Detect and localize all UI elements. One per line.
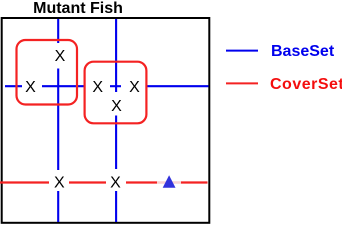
blue horizontal line segment 4: [147, 85, 209, 87]
svg-text:X: X: [54, 174, 65, 191]
faint pink line segment behind triangle: [157, 181, 181, 184]
svg-text:Mutant Fish: Mutant Fish: [33, 0, 123, 17]
svg-text:X: X: [110, 174, 121, 191]
svg-text:CoverSet: CoverSet: [270, 76, 342, 93]
red CoverSet rounded rect 1: [17, 40, 78, 105]
blue vertical line B segment middle: [115, 116, 117, 170]
blue vertical line A segment bottom: [57, 191, 59, 222]
blue horizontal line (y=86) segment 1: [5, 85, 22, 87]
svg-text:X: X: [55, 48, 66, 65]
legend BaseSet line: [226, 50, 258, 52]
svg-text:X: X: [25, 79, 36, 96]
svg-text:X: X: [111, 98, 122, 115]
blue vertical line A (x=58) segment top: [57, 19, 59, 43]
blue vertical line B (x=116) segment top: [115, 19, 117, 92]
blue horizontal line segment 3: [110, 85, 121, 87]
red horizontal line segment 3: [126, 181, 157, 183]
red horizontal line segment 2: [69, 181, 106, 183]
red horizontal line segment 4: [181, 181, 208, 183]
red CoverSet rounded rect 2: [85, 62, 147, 124]
svg-text:X: X: [129, 79, 140, 96]
plot box border: [2, 18, 210, 223]
red horizontal line (y=182.5) segment 1: [0, 181, 49, 183]
legend CoverSet line: [226, 82, 258, 84]
blue triangle marker: [163, 175, 176, 187]
blue vertical line B segment bottom: [115, 191, 117, 222]
blue vertical line A segment middle: [57, 69, 59, 171]
svg-text:X: X: [92, 79, 103, 96]
svg-text:BaseSet: BaseSet: [271, 43, 335, 60]
blue horizontal line segment 2: [42, 85, 85, 87]
